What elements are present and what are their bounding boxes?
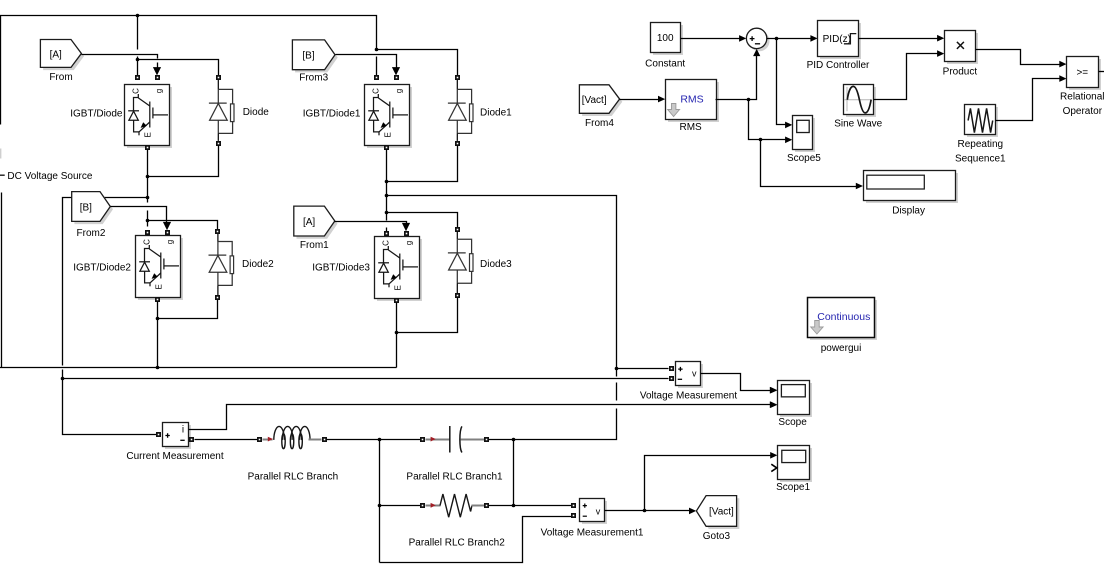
wire: From3 [B] to IGBT/Diode1 gate: [336, 55, 397, 69]
relational operator block (>=): [1067, 57, 1102, 91]
RMS block: [666, 80, 720, 123]
port + of Current Measurement: [156, 432, 161, 437]
svg-text:IGBT/Diode3: IGBT/Diode3: [312, 263, 370, 274]
wire: Diode2 bottom join horizontal: [158, 300, 218, 319]
resistor R zigzag: [440, 494, 472, 517]
plus sign in Current Measurement: [165, 433, 169, 437]
svg-text:Goto3: Goto3: [703, 531, 731, 542]
constant block Constant (100): [651, 23, 684, 56]
node: Diode2 bottom join: [156, 317, 160, 321]
port - of Voltage Measurement: [669, 376, 674, 381]
plus sign in Voltage Measurement: [678, 367, 682, 371]
product block Product (x): [945, 31, 979, 65]
svg-text:[B]: [B]: [80, 202, 92, 213]
wire: Constant to Sum: [681, 38, 740, 40]
node: VM+ tee on node B drop: [615, 367, 619, 371]
wire: node B drop between rail-B hop and scope-wire hop: [616, 383, 618, 401]
wire: Voltage Measurement1 v out to Goto3: [605, 510, 690, 512]
PID Controller block: [818, 21, 862, 60]
From tag [A] (From): [40, 40, 84, 71]
svg-text:C: C: [381, 240, 390, 246]
port + of Voltage Measurement: [669, 366, 674, 371]
svg-text:Scope5: Scope5: [787, 153, 821, 164]
wire: IGBT/Diode2 emitter down to rail A: [157, 302, 159, 368]
port + of Voltage Measurement1: [571, 503, 576, 508]
wire: Sum output to PID Controller: [767, 38, 811, 40]
svg-text:From3: From3: [299, 72, 328, 83]
svg-text:Repeating: Repeating: [958, 139, 1004, 150]
RMS gray arrow: [668, 104, 680, 117]
svg-text:Scope1: Scope1: [776, 482, 810, 493]
svg-text:Voltage Measurement: Voltage Measurement: [640, 390, 738, 401]
arrow into Product input 1: [937, 35, 944, 42]
DC Voltage Source block right-edge sliver: [0, 149, 1, 159]
transistor U2 IGBT/Diode1 block: [365, 85, 413, 149]
wire: From4 to RMS: [620, 99, 659, 101]
svg-text:E: E: [393, 285, 402, 290]
wire: VM1 out up to Scope1: [645, 456, 771, 511]
arrow into Relational Operator input 1: [1059, 61, 1066, 68]
svg-text:Parallel RLC Branch2: Parallel RLC Branch2: [409, 538, 506, 549]
powergui block: [808, 298, 878, 341]
arrow into g port of IGBT/Diode1: [392, 67, 400, 75]
arrow into Scope1: [770, 452, 777, 459]
wire: rail A (DC- bus): [0, 367, 397, 369]
node: Diode1 bottom join: [385, 180, 389, 184]
arrow into Product input 2: [937, 50, 944, 57]
svg-text:Constant: Constant: [645, 58, 685, 69]
minus sign in Voltage Measurement: [678, 378, 682, 380]
wire: node 1 to resistor branch: [380, 505, 421, 507]
wire: node B drop to load return corner: [514, 409, 617, 440]
wire: Voltage Measurement v out to Scope: [701, 374, 771, 391]
wire: Diode3 bottom join horizontal: [397, 298, 458, 333]
From tag [A] (From1): [294, 206, 338, 239]
node: leg-2 lower diode branch tee: [385, 211, 389, 215]
wire: From2 [B] to IGBT/Diode2 gate: [111, 207, 167, 223]
svg-text:v: v: [596, 507, 601, 517]
svg-text:C: C: [371, 88, 380, 94]
port g of IGBT/Diode1: [394, 75, 399, 80]
svg-text:PID Controller: PID Controller: [807, 60, 870, 71]
sine icon axes: [844, 87, 872, 111]
wire: resistor branch to node 2 drop: [489, 505, 514, 507]
arrow into Relational Operator input 2: [1059, 75, 1066, 82]
resistor branch: gray tail with red current arrow: [426, 505, 441, 507]
wire: node 1 drop to bottom loop: [379, 440, 381, 563]
wire: IGBT/Diode3 emitter down joining rail A right end: [396, 303, 398, 368]
wire: inductor to node 1 and capacitor branch: [327, 439, 421, 441]
svg-text:Diode3: Diode3: [480, 259, 512, 270]
arrow into Scope input 1: [770, 387, 777, 394]
scope Scope block: [778, 381, 813, 418]
port C of IGBT/Diode3: [384, 231, 389, 236]
svg-text:Current Measurement: Current Measurement: [126, 451, 223, 462]
svg-text:Relational: Relational: [1060, 92, 1104, 103]
wire: branch to Diode3 top: [387, 213, 458, 228]
node: Display branch tee: [759, 138, 763, 142]
port C of IGBT/Diode: [135, 75, 140, 80]
svg-text:C: C: [131, 88, 140, 94]
inductor branch: right gray tail: [309, 439, 322, 441]
svg-text:Parallel RLC Branch1: Parallel RLC Branch1: [406, 472, 503, 483]
svg-text:Sine Wave: Sine Wave: [834, 119, 882, 130]
capacitor branch: right gray tail: [461, 439, 485, 441]
wire: node 2 to Voltage Measurement1 +: [514, 505, 572, 507]
svg-text:g: g: [154, 89, 163, 93]
wire: node A drop continues after rail hop: [63, 370, 157, 435]
svg-text:v: v: [692, 368, 697, 378]
From tag [Vact] (From4): [579, 85, 622, 116]
port C of IGBT/Diode2: [145, 230, 150, 235]
wire: Sum tee down to Scope5 input 1: [777, 39, 786, 125]
wire: leg-1 diode branch to Diode top: [138, 60, 219, 76]
wire: gate drop after hop gap: [157, 63, 159, 69]
plus sign in Sum: [750, 36, 755, 41]
Display value box: [867, 175, 925, 189]
wire: PID out to Product input 1: [859, 38, 938, 40]
node: leg-1 diode branch tee: [136, 58, 140, 62]
wire: Sine Wave to Product input 2: [874, 54, 938, 100]
svg-text:Diode1: Diode1: [480, 108, 512, 119]
arrow into PID Controller: [810, 35, 817, 42]
capacitor C plates: [450, 426, 462, 453]
svg-text:Operator: Operator: [1063, 106, 1103, 117]
svg-text:Voltage Measurement1: Voltage Measurement1: [541, 527, 644, 538]
wire: leg-2 collector drop below hop gap: [376, 57, 378, 76]
svg-text:IGBT/Diode1: IGBT/Diode1: [303, 109, 361, 120]
svg-text:g: g: [165, 240, 174, 244]
wire: Relational Operator output to edge: [1099, 71, 1104, 73]
arrow into Sum left input: [739, 35, 746, 42]
diode D1 Diode block: [216, 75, 221, 80]
resistor branch: right port: [484, 503, 489, 508]
inductor branch: Parallel RLC Branch left port: [257, 437, 262, 442]
minus sign in Voltage Measurement1: [583, 515, 587, 517]
wire: capacitor branch to node 2: [489, 439, 514, 441]
svg-text:>=: >=: [1076, 67, 1088, 78]
wire: leg-2 emitter stub above C port after hop gap: [386, 228, 388, 232]
svg-text:Scope: Scope: [778, 417, 807, 428]
svg-text:Diode: Diode: [243, 107, 270, 118]
scope Scope1 block: [778, 446, 813, 483]
triangle wave icon: [968, 108, 993, 132]
resistor branch: right gray tail: [472, 505, 485, 507]
repeating sequence source Repeating Sequence1 block: [965, 105, 999, 138]
svg-text:[B]: [B]: [302, 51, 314, 62]
meter VM Voltage Measurement block: [676, 362, 704, 389]
arrow into Display: [856, 183, 863, 190]
svg-text:RMS: RMS: [680, 93, 703, 105]
diode D4 Diode3 block: [455, 227, 460, 232]
svg-text:E: E: [154, 284, 163, 289]
svg-text:From4: From4: [585, 118, 614, 129]
svg-text:[Vact]: [Vact]: [709, 507, 734, 518]
port E of IGBT/Diode3: [394, 298, 399, 303]
svg-text:IGBT/Diode2: IGBT/Diode2: [73, 263, 131, 274]
capacitor branch: gray tail with red current arrow: [426, 439, 450, 441]
wire: From1 [A] to IGBT/Diode3 gate: [335, 222, 407, 224]
From tag [B] (From2): [72, 192, 113, 224]
wire: leg-1 midpoint out to the left and down to Current Measurement: [63, 198, 148, 366]
port g of IGBT/Diode3: [404, 231, 409, 236]
wire: leg-2 emitter down with mid tees: [386, 150, 388, 221]
DC Voltage Source minus terminal tick: [0, 174, 5, 176]
inductor branch: right port: [322, 437, 327, 442]
svg-text:Sequence1: Sequence1: [955, 154, 1006, 165]
wire: Diode bottom to leg-1 midpoint: [148, 146, 219, 177]
node: leg-2 diode branch tee: [375, 48, 379, 52]
svg-text:Continuous: Continuous: [817, 311, 870, 323]
node: RMS output tee: [747, 98, 751, 102]
svg-text:[Vact]: [Vact]: [582, 95, 607, 106]
capacitor branch: Parallel RLC Branch1 left port: [420, 437, 425, 442]
wire: Current Measurement i output to Scope input 2: [189, 405, 771, 430]
svg-text:g: g: [404, 241, 413, 245]
sine source Sine Wave block: [844, 85, 877, 118]
wire: From [A] to IGBT/Diode gate: [82, 55, 158, 59]
port E of IGBT/Diode: [145, 145, 150, 150]
svg-text:IGBT/Diode: IGBT/Diode: [70, 109, 123, 120]
svg-text:Parallel RLC Branch: Parallel RLC Branch: [248, 472, 339, 483]
wire: DC source - lead down to rail: [1, 193, 3, 368]
svg-text:From: From: [49, 72, 72, 83]
port - of Current Measurement: [189, 437, 194, 442]
svg-text:i: i: [182, 424, 184, 435]
svg-text:powergui: powergui: [821, 343, 862, 354]
wire: load line Current Measurement - to inductor branch: [195, 439, 258, 441]
Goto tag Goto3 [Vact]: [696, 496, 739, 529]
wire: RMS tee down to Scope5 input 2: [749, 100, 786, 140]
port E of IGBT/Diode1: [384, 145, 389, 150]
node: rail A tee from leg-1 lower arms: [156, 366, 160, 370]
svg-text:[A]: [A]: [50, 49, 62, 60]
node 2 top tee: [512, 438, 516, 442]
wire: node 2 drop: [513, 440, 515, 506]
svg-text:From2: From2: [77, 228, 106, 239]
node: leg-1 midpoint tee (node A): [146, 196, 150, 200]
powergui gray arrow: [811, 321, 823, 335]
meter CM Current Measurement block: [163, 423, 192, 450]
arrow into g port of IGBT/Diode3: [402, 223, 410, 231]
wire: leg-1 emitter down with mid tees (upper part): [147, 150, 149, 203]
wire: rail B node A to Voltage Measurement -: [63, 378, 669, 380]
svg-text:E: E: [143, 132, 152, 137]
wire: bottom loop to Voltage Measurement1 -: [380, 517, 572, 563]
wire: leg-2 midpoint out to the right and down to load return: [387, 196, 617, 377]
node: leg-1 lower diode branch tee: [146, 219, 150, 223]
wire: DC+ top rail from left edge, corner down to leg-2: [0, 16, 377, 50]
port C of IGBT/Diode1: [374, 75, 379, 80]
minus sign in Sum: [755, 43, 760, 45]
display block Display: [864, 171, 959, 204]
svg-text:100: 100: [657, 33, 674, 44]
wire: RMS out to Sum bottom input: [716, 56, 757, 100]
wire: branch to Diode2 top: [148, 221, 218, 230]
wire: leg-1 emitter lower part after hop gap: [147, 211, 149, 227]
transistor U4 IGBT/Diode3 block: [375, 237, 423, 302]
wire: leg-1 collector rail lower part (hop gap above From wire): [137, 57, 139, 76]
svg-text:DC Voltage Source: DC Voltage Source: [7, 171, 92, 182]
arrow into Scope5 input 1: [785, 122, 792, 129]
node: Diode3 bottom join: [395, 331, 399, 335]
arrow into g port of IGBT/Diode2: [163, 222, 171, 230]
svg-text:Display: Display: [892, 205, 925, 216]
wire: tee to Voltage Measurement +: [617, 368, 669, 370]
From tag [B] (From3): [292, 40, 337, 72]
node: VM1 output tee: [643, 509, 647, 513]
svg-text:Product: Product: [943, 66, 978, 77]
sum block Sum (+-): [746, 28, 769, 51]
arrow into g port of IGBT/Diode: [153, 67, 161, 75]
wire: leg-1 collector rail upper part: [137, 16, 139, 50]
svg-text:[A]: [A]: [303, 217, 315, 228]
multiply cross in Product: [957, 42, 964, 49]
PID step glyph: [844, 34, 856, 44]
arrow into RMS input: [658, 96, 665, 103]
port g of IGBT/Diode: [155, 75, 160, 80]
transistor U3 IGBT/Diode2 block: [136, 236, 184, 301]
capacitor branch: right port: [484, 437, 489, 442]
transistor U1 IGBT/Diode block: [125, 85, 173, 149]
node 1 top tee: [378, 438, 382, 442]
arrow into Scope input 2: [770, 401, 777, 408]
arrow up into Sum bottom input: [753, 49, 760, 56]
wire: Repeating Sequence1 to Relational Operator input 2: [996, 79, 1060, 121]
node 1 lower tee: [378, 504, 382, 508]
svg-text:E: E: [383, 132, 392, 137]
node: leg-2 midpoint tee (node B): [385, 194, 389, 198]
port E of IGBT/Diode2: [155, 297, 160, 302]
svg-text:Diode2: Diode2: [242, 259, 274, 270]
scope Scope5 block: [793, 116, 816, 153]
node: top rail tee to leg-1: [136, 14, 140, 18]
node 2 lower tee: [512, 504, 516, 508]
svg-text:C: C: [142, 239, 151, 245]
inductor branch: gray tail with red current arrow: [263, 439, 273, 441]
minus sign in Current Measurement: [180, 439, 184, 441]
wire: tee down to Display: [761, 140, 857, 187]
arrow into Scope5 input 2: [785, 137, 792, 144]
svg-text:RMS: RMS: [679, 122, 702, 133]
wire: DC source + lead at left edge: [0, 16, 2, 125]
wire: leg-2 diode branch to Diode1 top: [377, 50, 458, 76]
meter VM1 Voltage Measurement1 block: [580, 499, 608, 525]
sine icon curve: [847, 86, 871, 113]
svg-text:From1: From1: [300, 240, 329, 251]
wire: Product out to Relational Operator input 1: [976, 50, 1060, 65]
node: Diode bottom join: [146, 175, 150, 179]
node: rail B start tee: [61, 377, 65, 381]
wire: Diode1 bottom to leg-2 midpoint: [387, 146, 458, 182]
port - of Voltage Measurement1: [571, 513, 576, 518]
resistor branch: Parallel RLC Branch2 left port: [420, 503, 425, 508]
svg-text:g: g: [394, 89, 403, 93]
inductor L coil arcs: [274, 426, 310, 448]
node: Sum output tee: [775, 37, 779, 41]
arrow into Goto3: [689, 508, 696, 515]
diode D2 Diode1 block: [455, 75, 460, 80]
port g of IGBT/Diode2: [165, 230, 170, 235]
plus sign in Voltage Measurement1: [583, 504, 587, 508]
diode D3 Diode2 block: [215, 229, 220, 234]
